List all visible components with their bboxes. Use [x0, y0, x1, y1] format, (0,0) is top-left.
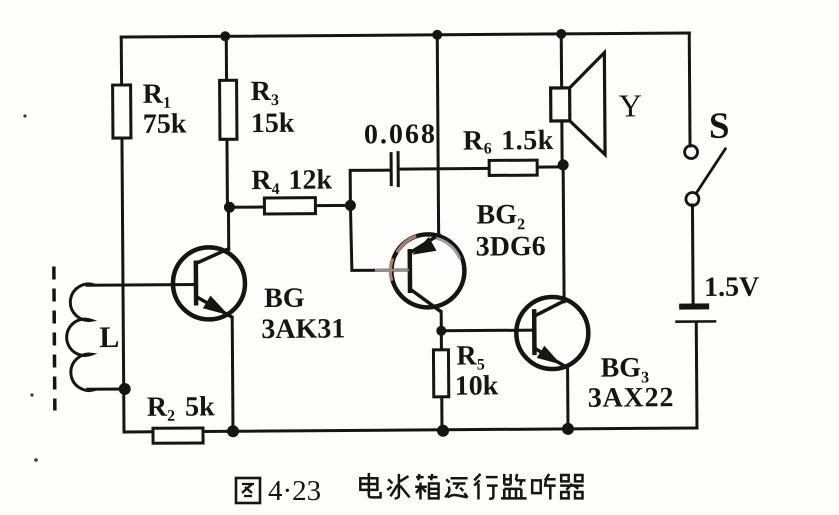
svg-text:Y: Y	[619, 87, 642, 123]
svg-text:1.5V: 1.5V	[704, 272, 759, 303]
svg-text:3AX22: 3AX22	[588, 382, 675, 414]
svg-text:4·23: 4·23	[268, 475, 321, 507]
svg-text:L: L	[99, 321, 119, 354]
svg-text:S: S	[709, 106, 730, 147]
svg-text:10k: 10k	[455, 370, 499, 401]
svg-text:BG2: BG2	[476, 199, 525, 233]
svg-text:BG: BG	[264, 283, 305, 314]
svg-text:3AK31: 3AK31	[261, 313, 345, 345]
svg-text:15k: 15k	[251, 108, 295, 139]
svg-text:R25k: R25k	[147, 391, 215, 424]
svg-text:R412k: R412k	[251, 165, 332, 199]
svg-text:R3: R3	[251, 76, 279, 109]
svg-text:R1: R1	[143, 79, 171, 112]
svg-text:R61.5k: R61.5k	[463, 125, 554, 158]
svg-text:3DG6: 3DG6	[476, 231, 546, 262]
svg-text:75k: 75k	[143, 109, 187, 140]
svg-text:R5: R5	[456, 340, 484, 373]
svg-text:0.068: 0.068	[364, 119, 437, 151]
